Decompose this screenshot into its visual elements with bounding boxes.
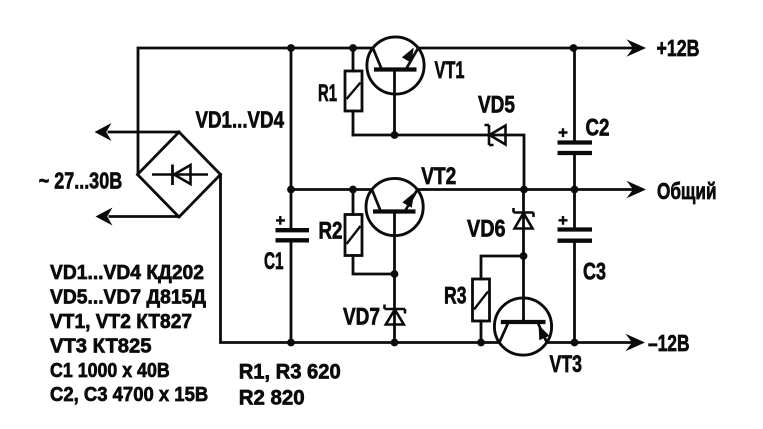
arrow: +12V output <box>627 39 647 57</box>
node: VD6 / R3 / VT3 base <box>520 252 528 260</box>
svg-text:VT2: VT2 <box>421 163 456 190</box>
svg-text:R2 820: R2 820 <box>239 387 305 410</box>
svg-text:R1, R3 620: R1, R3 620 <box>239 361 341 384</box>
wire: middle rail right segment to common arrow <box>417 188 634 191</box>
wire: AC input top lead <box>109 131 179 134</box>
wire: bridge left vertex up to top rail, left segment of +raw rail <box>138 48 373 175</box>
svg-text:+12В: +12В <box>657 35 700 61</box>
bridge rectifier VD1...VD4 <box>138 132 221 217</box>
node: common rail / C2-C3 <box>571 186 579 194</box>
zener diode VD6 <box>514 208 534 229</box>
node: bottom rail / C3 <box>571 339 579 347</box>
svg-text:VD6: VD6 <box>467 216 506 243</box>
svg-text:VD5...VD7 Д815Д: VD5...VD7 Д815Д <box>50 287 206 309</box>
svg-text:С2, С3 4700 х 15В: С2, С3 4700 х 15В <box>50 384 208 406</box>
svg-text:VT3 КТ825: VT3 КТ825 <box>50 336 152 358</box>
svg-text:VT3: VT3 <box>550 351 583 378</box>
resistor R1 <box>345 71 362 111</box>
svg-text:VD1...VD4: VD1...VD4 <box>196 107 285 133</box>
capacitor C2 <box>558 128 593 153</box>
svg-text:VD5: VD5 <box>478 92 515 119</box>
wire: VD5 node down through VD6 to VT3 base <box>522 190 525 323</box>
node: VT2 base / R2 <box>391 270 399 278</box>
wire: top rail right segment to +12V arrow <box>418 47 634 50</box>
resistor R2 <box>345 215 362 256</box>
node: bottom rail / VD7 <box>391 339 399 347</box>
wire: VT1 base node to VD5 and down to common rail <box>353 135 524 190</box>
wire: bridge right vertex down and -raw bottom rail to VT3 <box>221 175 500 343</box>
svg-text:–12В: –12В <box>648 330 690 356</box>
svg-text:С1 1000 х 40В: С1 1000 х 40В <box>50 360 170 382</box>
wire: VT1 base lead <box>393 70 396 136</box>
wire: R3 top lead from VD6 node, bottom lead to bottom rail <box>481 256 524 343</box>
zener diode VD5 <box>485 125 506 145</box>
resistor R3 <box>473 279 490 321</box>
node: bottom rail / C1 <box>287 339 295 347</box>
node: top rail / C2 <box>570 44 578 52</box>
zener diode VD7 <box>385 305 406 325</box>
svg-text:С3: С3 <box>583 259 606 286</box>
node: VT1 base / R1 / VD5 <box>391 131 399 139</box>
svg-text:VT1: VT1 <box>435 57 465 84</box>
arrow: -12V output <box>626 334 646 352</box>
arrow: AC input top <box>95 123 112 141</box>
svg-text:R2: R2 <box>319 218 343 245</box>
wire: AC input bottom lead <box>110 215 179 218</box>
wire: C3 leads from common rail to bottom rail <box>573 190 576 343</box>
svg-text:~ 27...30В: ~ 27...30В <box>39 168 123 194</box>
node: common rail / VD5-VD6 <box>520 186 528 194</box>
wire: C1 bottom plate down to -raw rail <box>290 240 293 342</box>
arrow: common output <box>627 181 647 199</box>
svg-text:С1: С1 <box>264 248 284 275</box>
svg-text:VT1, VT2 КТ827: VT1, VT2 КТ827 <box>50 311 192 333</box>
capacitor C1 <box>276 216 310 240</box>
wire: VT2 base lead down through VD7 to bottom rail <box>393 212 396 343</box>
svg-text:VD7: VD7 <box>343 304 380 331</box>
node: middle rail start / C1 <box>287 186 295 194</box>
svg-text:Общий: Общий <box>657 178 717 204</box>
svg-text:С2: С2 <box>586 115 610 142</box>
transistor VT1 <box>367 37 424 94</box>
node: bottom rail / R3 <box>477 339 485 347</box>
node: middle rail / R2 <box>349 186 357 194</box>
node: top rail / C1 feed <box>287 44 295 52</box>
wire: R2 top lead, bottom lead to VT2 base node <box>353 190 395 275</box>
wire: middle rail left segment to VT2 collector side <box>291 188 372 191</box>
svg-text:VD1...VD4 КД202: VD1...VD4 КД202 <box>50 262 204 284</box>
wire: R1 top and bottom leads <box>352 48 355 135</box>
svg-text:R3: R3 <box>444 283 467 310</box>
wire: bottom rail right segment to -12V arrow <box>547 341 634 344</box>
wire: +raw vertical from top rail down to C1 top plate <box>290 48 293 230</box>
arrow: AC input bottom <box>96 208 113 226</box>
transistor VT3 <box>494 298 551 355</box>
svg-text:R1: R1 <box>318 80 337 107</box>
capacitor C3 <box>558 216 593 241</box>
node: top rail / R1 <box>349 44 357 52</box>
wire: C2 leads from top rail to common rail <box>573 48 576 190</box>
transistor VT2 <box>366 178 423 235</box>
